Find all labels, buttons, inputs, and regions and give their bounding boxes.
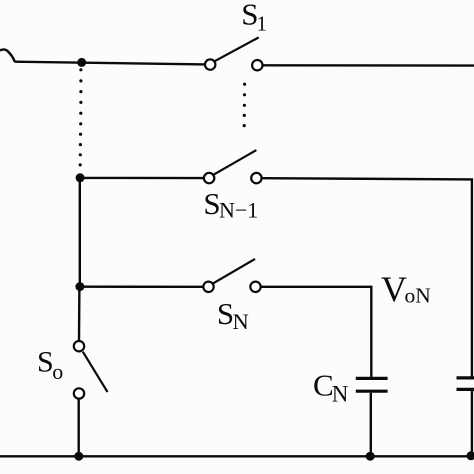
switch SN-1 <box>204 150 262 183</box>
svg-text:N: N <box>332 382 349 407</box>
wire: row N rail to switch SN <box>80 286 204 288</box>
node: junction of row N with column A <box>75 282 84 291</box>
wire: SN-1 to right column and down to right capacitor <box>261 178 472 377</box>
switch So <box>74 341 108 399</box>
wire: input lead curve at top-left <box>0 49 15 61</box>
capacitor at right edge (partially visible) <box>457 378 474 390</box>
wire: bottom rail <box>0 455 474 457</box>
wire: column A from row N to switch So <box>78 287 81 342</box>
node: junction of top rail with column A <box>77 58 86 67</box>
wire: top rail from input lead to switch S1 <box>14 62 205 65</box>
node: junction of CN branch with bottom rail <box>366 452 375 461</box>
switch SN <box>203 259 260 292</box>
svg-text:C: C <box>313 368 334 403</box>
node: junction of row N-1 with column A <box>76 173 85 182</box>
node: junction of So branch with bottom rail <box>74 452 83 461</box>
wire: column A from row N-1 to row N <box>79 178 81 287</box>
wire: CN bottom plate to bottom rail <box>370 393 372 456</box>
switch S1 <box>205 37 263 70</box>
svg-text:N−1: N−1 <box>219 198 258 223</box>
wire: So to bottom rail <box>77 399 79 457</box>
wire: dotted ellipsis between switches S1 and SN-1 <box>243 83 247 128</box>
node: junction of right column with bottom rail <box>467 451 474 460</box>
wire: dotted column A between top rail and row N-1 <box>79 68 83 166</box>
wire: S1 to right edge <box>262 64 474 67</box>
wire: SN to capacitor CN <box>261 287 372 378</box>
svg-text:N: N <box>233 309 249 334</box>
svg-text:S: S <box>37 345 54 378</box>
svg-text:oN: oN <box>405 283 432 307</box>
wire: right capacitor to bottom rail <box>471 391 473 456</box>
svg-text:1: 1 <box>257 11 268 35</box>
wire: row N-1 rail to switch SN-1 <box>80 177 204 180</box>
capacitor CN <box>356 378 388 391</box>
svg-text:o: o <box>52 359 63 384</box>
svg-text:V: V <box>381 269 407 309</box>
